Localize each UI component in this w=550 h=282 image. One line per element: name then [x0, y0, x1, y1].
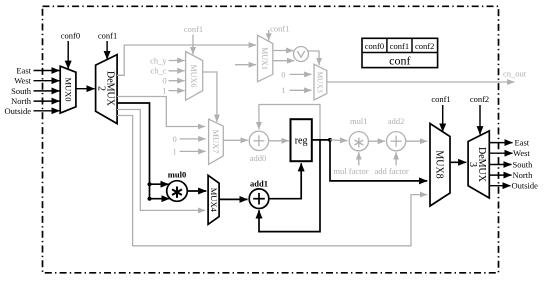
svg-text:add2: add2 [388, 116, 405, 126]
mux MUX8 [430, 124, 450, 207]
wire add0 out to reg [269, 140, 289, 142]
wire 1 into MUX6 [169, 90, 185, 92]
comparator circle [294, 47, 309, 62]
wire floating into MUX1 in2 [235, 64, 256, 66]
wire comparator out into MUX3 select [309, 51, 320, 65]
node conf0 label [61, 30, 80, 40]
svg-text:West: West [513, 148, 530, 158]
svg-text:mul factor: mul factor [333, 166, 368, 176]
node 1 label MUX7 [172, 146, 176, 156]
node cn_out label [503, 69, 527, 79]
border frame [43, 6, 499, 273]
wire conf1 select into MUX8 [442, 105, 444, 132]
wire DeMUX2 out gray up to MUX1 in1 [117, 45, 256, 75]
node conf1 label [98, 30, 117, 40]
wire mul0 input branch upper [150, 183, 169, 185]
wire reg out to junction [312, 139, 330, 141]
multiplier mul1 [349, 132, 368, 152]
wire 0 into MUX6 [169, 80, 185, 82]
svg-text:Outside: Outside [512, 181, 539, 191]
wire mul0 input branch lower [150, 198, 170, 200]
node West (right) [513, 148, 530, 158]
svg-text:conf0: conf0 [61, 30, 80, 40]
wire MUX4 out to add1 [219, 198, 247, 200]
svg-text:MUX3: MUX3 [316, 71, 325, 93]
wire DeMUX3 to Outside [489, 185, 510, 187]
wire add1 out up into reg bottom [269, 163, 301, 199]
svg-text:conf1: conf1 [184, 24, 203, 34]
wire DeMUX2 out gray to MUX7 in1 [117, 97, 205, 127]
svg-text:conf1: conf1 [98, 30, 117, 40]
adder add0 [249, 131, 268, 150]
svg-text:add1: add1 [250, 179, 268, 189]
wire conf2 select into DeMUX3 [479, 105, 481, 134]
mux MUX7 [209, 119, 224, 164]
wire DeMUX2 out black to mul0 (vertical trunk) [117, 103, 149, 199]
svg-text:conf: conf [389, 54, 410, 68]
wire MUX8 out to DeMUX3 [450, 161, 466, 163]
wire add2 to MUX8 in1 [406, 140, 428, 142]
junction dot mul0 upper [148, 182, 152, 186]
wire ch_y into MUX6 [169, 60, 185, 62]
node mul0 label [168, 169, 186, 179]
wire North to MUX0 [34, 100, 60, 102]
node 1 label MUX3 [281, 85, 285, 95]
svg-text:MUX1: MUX1 [260, 47, 269, 70]
svg-text:add0: add0 [250, 153, 267, 163]
svg-text:conf1: conf1 [270, 24, 289, 34]
svg-text:MUX4: MUX4 [209, 188, 219, 213]
svg-text:North: North [11, 96, 32, 106]
node add0 label [250, 153, 267, 163]
node conf2 label above DeMUX3 [470, 94, 489, 104]
wire add factor up into add2 [395, 152, 397, 165]
node Outside (left) [5, 106, 32, 116]
wire East to MUX0 [34, 70, 60, 72]
node mul1 label [350, 116, 367, 126]
node add2 label [388, 116, 405, 126]
wire conf1 select arrow into DeMUX2 [106, 41, 108, 59]
wire conf1 gray select into MUX1 [268, 30, 270, 41]
svg-text:MUX0: MUX0 [64, 77, 74, 101]
node 0 label MUX7 [172, 134, 176, 144]
svg-text:conf1: conf1 [431, 94, 450, 104]
node Outside (right) [512, 181, 539, 191]
adder add2 [387, 132, 406, 151]
node add factor label [374, 166, 408, 176]
svg-text:South: South [513, 159, 534, 169]
svg-text:0: 0 [281, 69, 285, 79]
wire 1 into MUX7 [180, 150, 206, 152]
wire DeMUX3 to West [489, 152, 512, 154]
wire add1 feedback from reg out line [259, 140, 320, 232]
multiplier mul0 [167, 181, 188, 202]
svg-text:add factor: add factor [374, 166, 408, 176]
demux DeMUX2 [96, 55, 118, 124]
node conf1 gray label above MUX6 [184, 24, 203, 34]
wire DeMUX3 to North [489, 174, 511, 176]
node East (left) [16, 65, 31, 75]
wire MUX6 out down into MUX7 select [203, 72, 217, 122]
mux MUX6 [186, 52, 203, 101]
wire MUX1 out upper to comparator [273, 50, 294, 52]
svg-text:1: 1 [172, 146, 176, 156]
node 1 label MUX6 [162, 86, 166, 96]
node 0 label MUX6 [162, 76, 166, 86]
node South (right) [513, 159, 534, 169]
svg-text:reg: reg [295, 135, 308, 146]
mux MUX0 [60, 66, 76, 113]
node mul factor label [333, 166, 368, 176]
node ch_c label [151, 66, 167, 76]
svg-text:West: West [14, 76, 31, 86]
wire 0 into MUX7 [180, 138, 206, 140]
svg-text:2: 2 [96, 86, 107, 91]
wire MUX1 out lower to comparator [273, 60, 295, 62]
svg-text:conf0: conf0 [365, 41, 384, 51]
node add1 label [250, 179, 268, 189]
svg-text:mul1: mul1 [350, 116, 367, 126]
wire mul0 out to MUX4 [187, 190, 206, 192]
wire DeMUX3 to East [489, 142, 512, 144]
svg-text:1: 1 [162, 86, 166, 96]
node North (right) [513, 170, 534, 180]
wire 0 into MUX3 [290, 73, 312, 75]
svg-text:MUX7: MUX7 [211, 129, 221, 153]
svg-text:East: East [16, 65, 31, 75]
wire West to MUX0 [34, 80, 60, 82]
wire reg out down and right to MUX8 in2 [330, 140, 427, 181]
node West (left) [14, 76, 31, 86]
svg-text:MUX6: MUX6 [189, 65, 198, 88]
wire cn_out from MUX3 across border [327, 81, 515, 83]
wire reg out gray to mul1 [330, 139, 348, 142]
node North (left) [11, 96, 32, 106]
mux MUX3 [314, 64, 327, 100]
svg-text:cn_out: cn_out [503, 69, 527, 79]
svg-text:Outside: Outside [5, 106, 32, 116]
svg-text:North: North [513, 170, 534, 180]
svg-text:0: 0 [172, 134, 176, 144]
svg-text:conf2: conf2 [415, 41, 434, 51]
wire conf1 gray select into MUX6 [192, 35, 194, 55]
wire 1 into MUX3 [290, 89, 312, 91]
wire DeMUX2 out gray to MUX4 in2 [117, 110, 205, 211]
svg-text:South: South [11, 86, 32, 96]
wire DeMUX2 out gray bottom loop to MUX8 in3 [117, 116, 427, 246]
node conf1 gray label above MUX1 [270, 24, 289, 34]
svg-text:1: 1 [281, 85, 285, 95]
node 0 label MUX3 [281, 69, 285, 79]
mux MUX4 [208, 175, 219, 224]
node South (left) [11, 86, 32, 96]
wire mul1 to add2 [368, 140, 385, 142]
wire mul factor up into mul1 [358, 152, 360, 165]
svg-text:conf1: conf1 [390, 41, 409, 51]
wire Outside to MUX0 [34, 110, 60, 112]
junction dot reg out [328, 138, 332, 142]
mux MUX1 [258, 35, 273, 81]
node East (right) [515, 138, 530, 148]
wire add0 feedback loop from reg line [259, 105, 320, 140]
svg-text:0: 0 [162, 76, 166, 86]
svg-text:conf2: conf2 [470, 94, 489, 104]
node conf1 label above MUX8 [431, 94, 450, 104]
svg-text:∗: ∗ [170, 183, 184, 202]
wire MUX0 out to DeMUX2 [76, 88, 95, 90]
svg-text:MUX8: MUX8 [434, 150, 445, 178]
svg-text:ch_c: ch_c [151, 66, 167, 76]
svg-text:ch_y: ch_y [150, 55, 167, 65]
wire MUX7 out to add0 [223, 139, 248, 141]
wire DeMUX3 to South [489, 164, 511, 166]
wire South to MUX0 [34, 90, 60, 92]
adder add1 [249, 189, 269, 209]
svg-text:∗: ∗ [352, 135, 365, 152]
svg-text:East: East [515, 138, 530, 148]
svg-text:3: 3 [467, 162, 478, 167]
demux DeMUX3 [467, 131, 489, 198]
wire ch_c into MUX6 [169, 70, 185, 72]
conf table [362, 38, 438, 67]
junction dot mul0 lower [148, 197, 152, 201]
svg-text:mul0: mul0 [168, 169, 186, 179]
node ch_y label [150, 55, 167, 65]
wire conf0 select arrow into MUX0 [67, 41, 69, 69]
register reg [291, 119, 312, 161]
